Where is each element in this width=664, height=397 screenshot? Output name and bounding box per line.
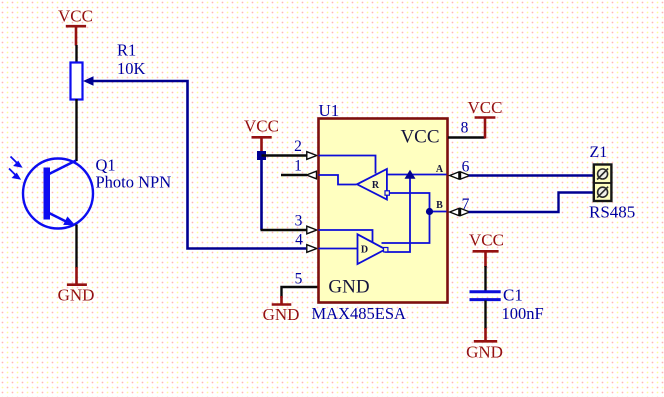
svg-text:100nF: 100nF bbox=[502, 304, 544, 323]
svg-text:7: 7 bbox=[462, 196, 470, 213]
op-amp U1 body MAX485ESA bbox=[319, 119, 448, 303]
Z1 screw terminal 1 bbox=[597, 169, 608, 180]
Z1 screw terminal 2 bbox=[597, 187, 608, 198]
svg-text:GND: GND bbox=[466, 343, 503, 362]
svg-text:2: 2 bbox=[294, 138, 302, 155]
svg-text:Z1: Z1 bbox=[590, 144, 608, 161]
internal wire R lower input to B and D bbox=[382, 193, 430, 243]
svg-text:MAX485ESA: MAX485ESA bbox=[312, 304, 407, 323]
pin 2 input arrowhead bbox=[307, 152, 317, 160]
transistor Q1 circle bbox=[23, 159, 93, 229]
notch at D output tip bbox=[384, 248, 388, 252]
pin 4 input arrowhead bbox=[307, 245, 317, 253]
junction dot at VCC / pin 2 bbox=[257, 151, 266, 160]
wire VCC junction down to pin 3 bbox=[260, 156, 263, 231]
internal wire R input to pin A bbox=[387, 174, 447, 176]
wiper arrow of R1 bbox=[83, 76, 94, 85]
svg-text:VCC: VCC bbox=[468, 98, 503, 117]
wire pin 8 to VCC bbox=[448, 136, 485, 138]
transistor Q1 emitter arrowhead bbox=[63, 216, 75, 225]
svg-text:Photo NPN: Photo NPN bbox=[96, 173, 172, 192]
power port VCC (top-left) bbox=[58, 7, 93, 46]
svg-text:C1: C1 bbox=[503, 286, 523, 305]
wire pin 2 bbox=[262, 154, 308, 156]
svg-text:VCC: VCC bbox=[400, 127, 439, 148]
connector Z1 body bbox=[594, 165, 612, 202]
power port GND (pin 5) bbox=[263, 296, 300, 324]
internal wire pin1 to R output bbox=[319, 175, 357, 185]
junction dot on B line bbox=[426, 208, 433, 215]
wire VCC to R1 top bbox=[75, 45, 77, 63]
power port VCC (middle, pins 2/3) bbox=[244, 117, 279, 154]
svg-text:6: 6 bbox=[462, 159, 470, 176]
svg-text:GND: GND bbox=[328, 277, 369, 298]
power port VCC (C1) bbox=[469, 231, 504, 268]
svg-text:A: A bbox=[436, 164, 444, 175]
internal wire A down to D output bbox=[385, 175, 411, 253]
junction arrow on A line bbox=[405, 170, 416, 179]
pin 3 input arrowhead bbox=[307, 226, 317, 234]
pin 1 output arrowhead bbox=[307, 171, 317, 179]
svg-text:GND: GND bbox=[263, 305, 300, 324]
svg-text:1: 1 bbox=[294, 158, 302, 175]
svg-text:VCC: VCC bbox=[58, 7, 93, 26]
wire pin 7 to Z1 bbox=[469, 193, 594, 213]
wire C1 bottom to GND bbox=[484, 301, 486, 330]
capacitor C1 plates bbox=[470, 292, 501, 300]
photo arrow 2 bbox=[9, 169, 19, 179]
svg-text:U1: U1 bbox=[319, 101, 340, 120]
wire pin 1 stub bbox=[281, 174, 307, 176]
wire pin 5 to GND bbox=[282, 287, 319, 298]
photo arrow 1 bbox=[11, 157, 21, 167]
transistor Q1 collector line bbox=[48, 161, 76, 175]
svg-text:GND: GND bbox=[58, 286, 95, 305]
svg-text:RS485: RS485 bbox=[589, 203, 635, 222]
wire R1 bottom to Q1 collector bbox=[75, 99, 77, 161]
svg-text:R: R bbox=[372, 180, 380, 191]
transistor Q1 emitter line bbox=[48, 213, 68, 223]
wire VCC to C1 top bbox=[484, 266, 486, 291]
transistor Q1 base bar bbox=[44, 168, 51, 220]
svg-text:5: 5 bbox=[295, 271, 303, 288]
svg-text:10K: 10K bbox=[117, 59, 146, 78]
svg-text:8: 8 bbox=[461, 120, 469, 137]
wire pin 6 to Z1 bbox=[469, 174, 594, 176]
svg-text:3: 3 bbox=[295, 213, 303, 230]
receiver triangle R inside U1 bbox=[357, 169, 387, 200]
power port GND (under Q1) bbox=[58, 267, 95, 305]
internal wire pin3 to D enable bbox=[319, 230, 373, 242]
svg-text:4: 4 bbox=[295, 232, 303, 249]
pin 7 bidirectional arrow bbox=[450, 208, 470, 216]
driver triangle D inside U1 bbox=[358, 234, 386, 264]
internal wire pin4 to D input bbox=[319, 248, 358, 250]
wire pin 3 bbox=[261, 229, 308, 231]
wire Q1 emitter to GND bbox=[75, 225, 77, 269]
wire R1 wiper to U1 pin 4 bbox=[93, 81, 307, 249]
resistor R1 (potentiometer body) bbox=[71, 63, 83, 100]
notch at R lower input bbox=[385, 191, 389, 195]
connector Z1 divider bbox=[594, 182, 612, 184]
svg-text:R1: R1 bbox=[117, 41, 136, 60]
svg-text:D: D bbox=[361, 245, 368, 256]
svg-text:VCC: VCC bbox=[244, 117, 279, 136]
internal wire B to pin 7 edge bbox=[430, 211, 447, 213]
internal wire pin2 to R enable bbox=[319, 156, 376, 174]
svg-text:B: B bbox=[436, 200, 443, 211]
power port GND (C1) bbox=[466, 328, 503, 362]
pin 6 bidirectional arrow bbox=[450, 172, 470, 180]
power port VCC (pin 8) bbox=[468, 98, 503, 139]
svg-text:VCC: VCC bbox=[469, 231, 504, 250]
